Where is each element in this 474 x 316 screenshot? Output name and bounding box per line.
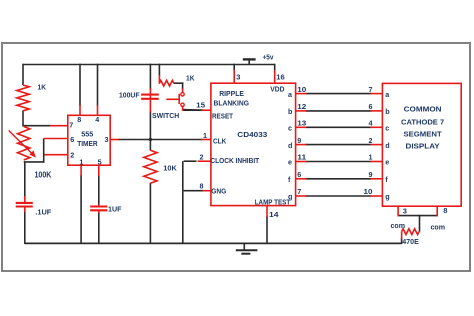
svg-text:6: 6 (297, 170, 301, 179)
svg-text:100K: 100K (35, 170, 52, 179)
svg-text:c: c (385, 124, 389, 133)
svg-text:555: 555 (81, 129, 93, 138)
svg-text:8: 8 (443, 206, 447, 215)
svg-text:com: com (431, 223, 446, 232)
svg-text:GNG: GNG (211, 187, 226, 196)
svg-text:2: 2 (70, 150, 74, 159)
svg-text:7: 7 (297, 187, 301, 196)
svg-text:RESET: RESET (212, 111, 233, 120)
svg-text:14: 14 (269, 210, 279, 219)
svg-text:COMMON: COMMON (404, 104, 442, 113)
svg-text:c: c (288, 124, 292, 133)
svg-text:SWITCH: SWITCH (152, 111, 179, 120)
svg-text:470E: 470E (402, 237, 419, 246)
svg-text:CD4033: CD4033 (237, 130, 267, 139)
svg-text:4: 4 (369, 119, 373, 128)
svg-text:e: e (385, 158, 389, 167)
svg-text:VDD: VDD (270, 85, 284, 94)
svg-text:8: 8 (77, 115, 81, 124)
svg-text:3: 3 (403, 206, 407, 215)
svg-text:d: d (288, 141, 292, 150)
svg-text:3: 3 (105, 135, 109, 144)
svg-text:com: com (391, 221, 406, 230)
svg-text:15: 15 (196, 100, 205, 109)
svg-text:LAMP TEST: LAMP TEST (255, 197, 291, 206)
svg-text:1: 1 (79, 158, 83, 167)
svg-text:5: 5 (98, 158, 102, 167)
svg-text:12: 12 (297, 102, 306, 111)
svg-text:8: 8 (200, 182, 204, 191)
svg-text:1: 1 (369, 153, 373, 162)
svg-text:10K: 10K (163, 164, 177, 173)
svg-text:g: g (385, 192, 389, 201)
svg-text:e: e (288, 158, 292, 167)
svg-text:1UF: 1UF (108, 204, 122, 213)
svg-text:CLOCK INHIBIT: CLOCK INHIBIT (210, 156, 259, 165)
svg-text:11: 11 (297, 153, 306, 162)
svg-text:3: 3 (236, 72, 240, 81)
svg-text:1K: 1K (38, 82, 47, 91)
svg-text:.1UF: .1UF (35, 208, 51, 217)
svg-text:6: 6 (70, 135, 74, 144)
svg-text:10: 10 (364, 187, 373, 196)
svg-text:6: 6 (369, 102, 373, 111)
svg-text:g: g (288, 192, 292, 201)
svg-text:10: 10 (297, 85, 306, 94)
svg-text:1: 1 (203, 131, 207, 140)
svg-text:CLK: CLK (213, 137, 227, 146)
svg-text:SEGMENT: SEGMENT (404, 130, 443, 139)
svg-text:b: b (385, 107, 390, 116)
svg-text:16: 16 (276, 72, 285, 81)
svg-text:4: 4 (95, 115, 99, 124)
svg-text:2: 2 (200, 153, 204, 162)
svg-text:+5v: +5v (263, 52, 275, 61)
svg-text:2: 2 (369, 136, 373, 145)
svg-text:b: b (288, 107, 293, 116)
svg-text:9: 9 (369, 170, 373, 179)
svg-text:13: 13 (297, 119, 306, 128)
svg-text:BLANKING: BLANKING (214, 98, 250, 107)
svg-text:DISPLAY: DISPLAY (406, 142, 440, 151)
svg-text:RIPPLE: RIPPLE (219, 89, 244, 98)
svg-text:7: 7 (69, 121, 73, 130)
svg-text:9: 9 (297, 136, 301, 145)
svg-text:TIMER: TIMER (77, 139, 98, 148)
svg-text:100UF: 100UF (119, 90, 140, 99)
svg-text:d: d (385, 141, 389, 150)
svg-text:7: 7 (369, 85, 373, 94)
svg-text:1K: 1K (186, 74, 195, 83)
svg-text:CATHODE 7: CATHODE 7 (401, 118, 444, 127)
